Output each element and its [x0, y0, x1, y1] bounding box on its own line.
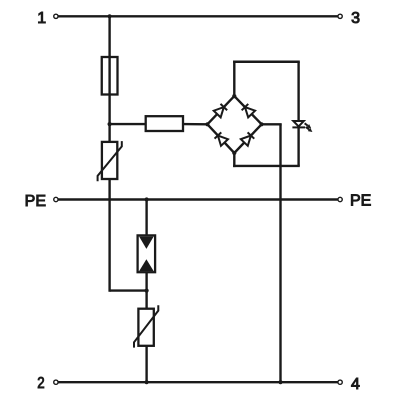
wire: node A to resistor: [110, 123, 146, 125]
junction: bridge AC2 node: [260, 122, 264, 126]
terminal 2: [37, 375, 58, 392]
wire: gas discharge tube to varistor RV2: [145, 272, 147, 309]
wire: varistor RV1 down, across PE, to node B: [110, 179, 147, 292]
wire: LED to bridge bottom rail: [297, 127, 299, 165]
wire: varistor RV2 to bottom rail: [145, 346, 147, 382]
wire: PE rail: [58, 198, 338, 200]
terminal 1: [37, 10, 58, 27]
wire: bridge + up and over to LED: [233, 61, 300, 121]
fuse F1: [102, 57, 118, 95]
wire: PE to gas discharge tube: [145, 200, 147, 236]
diode D1 (AC1 to +): [214, 104, 227, 117]
wire: left branch from top rail through fuse to node A: [108, 16, 110, 124]
gas discharge tube (spark gap) F2: [138, 235, 156, 272]
bridge rectifier diamond: [207, 96, 261, 153]
junction: bottom rail / AC2 branch: [278, 380, 282, 384]
junction: node B: [145, 289, 149, 293]
svg-text:2: 2: [37, 375, 44, 392]
svg-text:4: 4: [351, 376, 360, 393]
svg-text:PE: PE: [25, 193, 46, 210]
terminal 4: [338, 376, 360, 393]
wire: bottom rail 2-4: [58, 381, 338, 383]
terminal PE left: [25, 193, 58, 210]
varistor RV2: [134, 305, 158, 347]
resistor R1: [146, 116, 183, 131]
wire: top rail 1-3: [58, 15, 338, 17]
junction: PE rail / arrester branch: [145, 197, 149, 201]
junction: bridge + node: [232, 94, 236, 98]
svg-text:1: 1: [37, 10, 46, 27]
junction: bridge - node: [232, 151, 236, 155]
junction: node A: [108, 122, 112, 126]
junction: bottom rail / varistor branch: [145, 380, 149, 384]
diode D4 (- to AC2): [241, 132, 254, 145]
varistor RV1: [98, 124, 122, 181]
diode D2 (AC2 to +): [242, 104, 255, 117]
terminal 3: [338, 10, 360, 27]
svg-text:PE: PE: [350, 193, 371, 210]
junction: bridge AC1 node: [205, 122, 209, 126]
terminal PE right: [338, 193, 371, 210]
wire: bridge AC2 right and down to rail 2-4: [262, 124, 282, 382]
wire: bridge - to bottom rail of bridge: [233, 153, 300, 167]
LED D5: [292, 121, 305, 127]
wire: resistor to bridge AC1: [183, 123, 207, 126]
diode D3 (- to AC1): [215, 132, 228, 145]
LED light arrows: [305, 123, 313, 132]
svg-text:3: 3: [351, 10, 360, 27]
junction: top rail / left branch: [108, 14, 112, 18]
